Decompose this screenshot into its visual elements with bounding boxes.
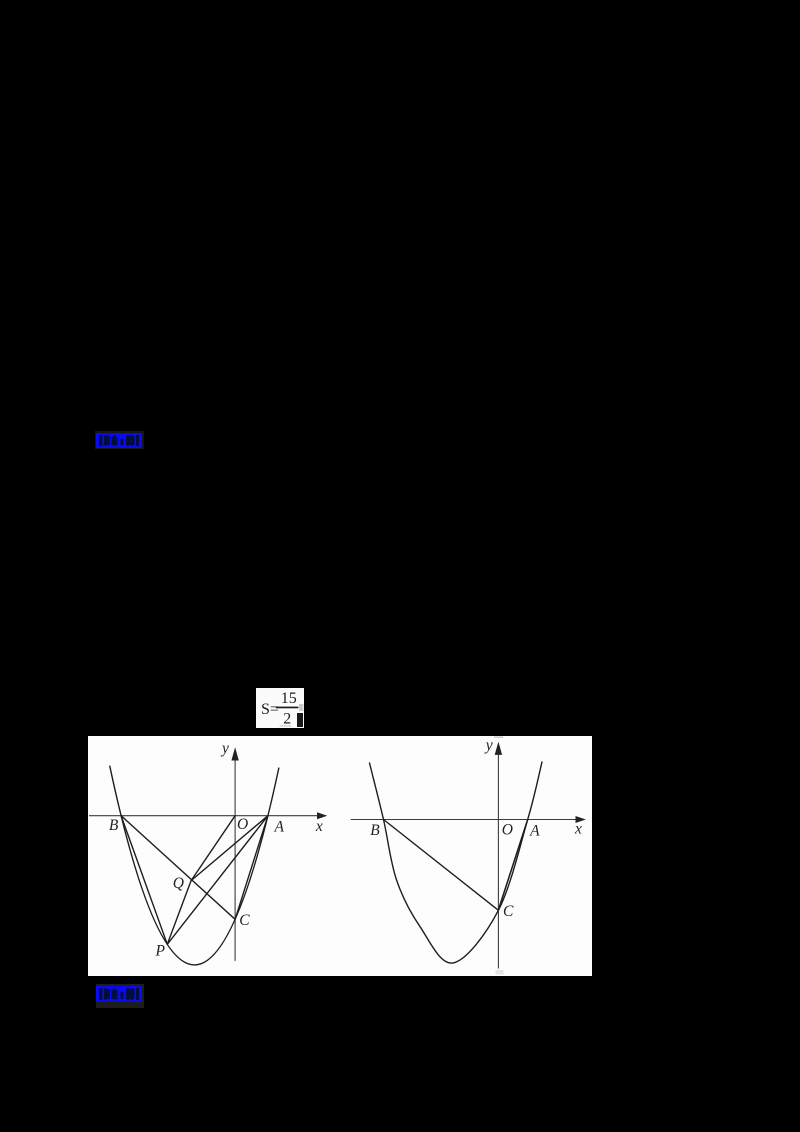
- label answer1 highlight: [96, 433, 142, 448]
- label answer1 box: [95, 431, 144, 449]
- right x-arrow: [576, 816, 586, 823]
- svg-text:O: O: [502, 822, 513, 839]
- svg-text:x: x: [315, 818, 323, 835]
- right chord A-C: [498, 820, 527, 911]
- svg-text:B: B: [370, 822, 380, 839]
- left y-arrow: [231, 747, 238, 760]
- chord A-C: [235, 816, 268, 920]
- svg-text:A: A: [529, 823, 540, 840]
- label answer2 highlight: [96, 986, 142, 1002]
- right x-axis: [351, 819, 578, 821]
- right chord B-C: [384, 820, 499, 911]
- gray handle bottom right-axis: [496, 970, 504, 975]
- chord A-Q: [191, 816, 268, 881]
- svg-text:S=: S=: [261, 701, 279, 718]
- formula handle gray: [299, 704, 303, 711]
- formula white box: [256, 688, 304, 728]
- chord B-C: [121, 816, 235, 920]
- svg-text:O: O: [237, 816, 248, 833]
- chord A-P: [167, 816, 268, 945]
- svg-text:C: C: [239, 912, 250, 929]
- formula S=15/2: [256, 688, 304, 728]
- left parabola: [110, 766, 279, 965]
- right parabola: [370, 762, 543, 963]
- label answer2 box: [96, 984, 144, 1008]
- label answer2 glyph marks: [96, 986, 142, 1002]
- svg-text:x: x: [574, 821, 582, 838]
- formula dark blob: [297, 713, 303, 727]
- svg-text:C: C: [503, 903, 514, 920]
- chord B-P: [121, 816, 167, 945]
- right y-axis: [497, 752, 499, 969]
- svg-text:y: y: [484, 737, 493, 754]
- left x-arrow: [317, 812, 327, 819]
- gray handle top right-axis: [494, 736, 503, 738]
- left x-axis: [89, 815, 320, 817]
- right braid A-C: [499, 823, 527, 908]
- svg-text:B: B: [109, 817, 119, 834]
- chord O-Q: [191, 816, 235, 881]
- svg-text:P: P: [155, 942, 166, 959]
- svg-text:y: y: [220, 740, 229, 757]
- svg-text:15: 15: [281, 690, 297, 707]
- chord Q-P: [167, 881, 191, 945]
- formula bottom strip: [280, 725, 292, 727]
- right y-arrow: [495, 742, 502, 755]
- left y-axis: [234, 758, 236, 961]
- svg-text:A: A: [274, 818, 285, 835]
- label answer1 glyph marks: [96, 433, 142, 448]
- svg-text:Q: Q: [173, 875, 184, 892]
- figure white box: [88, 736, 592, 976]
